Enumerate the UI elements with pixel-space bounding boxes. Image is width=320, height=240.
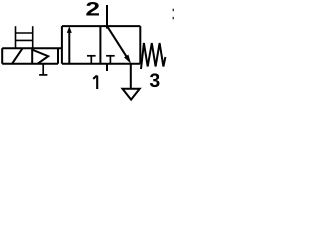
valve body top edge	[62, 25, 140, 27]
solenoid box top edge (extends to valve body)	[2, 47, 62, 49]
right square blocked port T stem	[109, 56, 111, 64]
port 2 line	[106, 5, 108, 29]
left square blocked port T bar	[87, 55, 96, 57]
valve body left edge	[61, 26, 63, 64]
valve body right edge	[139, 26, 141, 64]
left square flow arrow stem	[68, 32, 70, 64]
return spring	[141, 43, 165, 69]
port 3 line	[130, 64, 132, 89]
solenoid box right edge	[57, 48, 59, 64]
solenoid box left edge	[1, 48, 3, 64]
pilot valve rung 2	[16, 39, 33, 41]
solenoid box divider	[31, 48, 33, 64]
pilot valve box rail left	[15, 26, 17, 48]
exhaust triangle	[123, 89, 140, 100]
clipped blue text at right edge	[173, 9, 174, 20]
pilot valve box rail right	[32, 26, 34, 48]
pilot vent stem	[42, 64, 44, 75]
port label 3	[150, 73, 160, 87]
left square flow arrow head	[67, 26, 72, 33]
port label 1	[93, 76, 97, 90]
right square diagonal arrow head	[124, 55, 131, 64]
port label 2	[86, 2, 99, 16]
solenoid box bottom edge	[2, 63, 58, 65]
pilot valve rung 1	[16, 32, 33, 34]
valve body divider	[99, 26, 101, 64]
left square blocked port T stem	[90, 56, 92, 64]
valve body bottom edge	[62, 63, 140, 65]
right square blocked port T bar	[106, 55, 115, 57]
port 1 line	[106, 64, 108, 71]
pilot triangle	[32, 50, 48, 64]
solenoid coil diagonal	[12, 48, 22, 63]
right square diagonal flow line	[107, 26, 127, 57]
pilot vent bar	[39, 74, 47, 76]
